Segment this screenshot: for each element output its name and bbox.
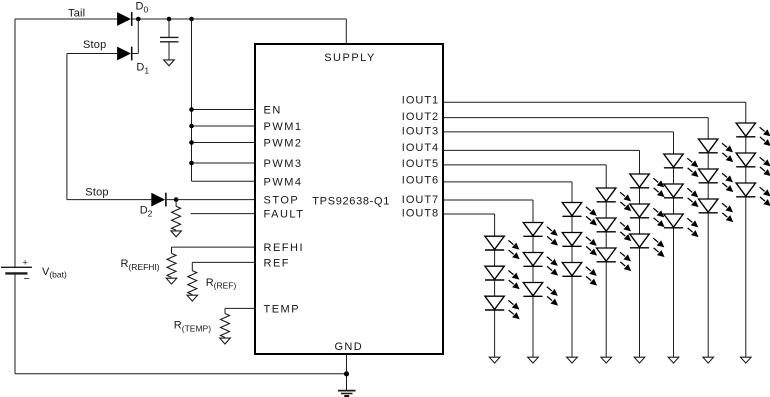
wire IOUT7 horizontal bbox=[443, 199, 533, 201]
wire Tail net horizontal bbox=[15, 18, 118, 20]
svg-text:IOUT4: IOUT4 bbox=[402, 142, 439, 154]
wire TEMP resistor lead bbox=[224, 308, 226, 313]
svg-text:PWM3: PWM3 bbox=[264, 158, 303, 170]
svg-text:EN: EN bbox=[264, 105, 282, 117]
wire D0 cathode to SUPPLY corner bbox=[133, 18, 347, 20]
output arrow IOUT7 string bbox=[528, 357, 539, 363]
junction D0 cathode node bbox=[136, 17, 141, 22]
junction PWM2 tap bbox=[189, 140, 194, 145]
LED string IOUT8 LED 1 bbox=[485, 236, 520, 259]
junction EN/PWM rail tap bbox=[189, 17, 194, 22]
LED string IOUT2 LED 2 bbox=[699, 169, 734, 192]
svg-text:+: + bbox=[23, 257, 28, 267]
svg-text:IOUT6: IOUT6 bbox=[402, 174, 439, 186]
LED string IOUT8 LED 3 bbox=[485, 296, 520, 319]
output arrow IOUT3 string bbox=[668, 357, 679, 363]
wire IOUT5 string vertical bbox=[605, 165, 607, 357]
junction PWM1 tap bbox=[189, 124, 194, 129]
svg-text:FAULT: FAULT bbox=[264, 209, 305, 221]
LED string IOUT5 LED 1 bbox=[597, 188, 632, 211]
wire ground return bottom bbox=[15, 373, 347, 375]
svg-text:IOUT7: IOUT7 bbox=[402, 194, 439, 206]
LED string IOUT3 LED 2 bbox=[664, 184, 699, 207]
wire IOUT5 horizontal bbox=[443, 164, 606, 166]
wire IOUT6 string vertical bbox=[571, 182, 573, 357]
wire PWM1 pin bbox=[192, 125, 256, 127]
wire PWM2 pin bbox=[192, 142, 256, 144]
wire IOUT8 string vertical bbox=[494, 214, 496, 357]
svg-text:Stop: Stop bbox=[85, 186, 108, 198]
diode D1 bbox=[117, 47, 132, 61]
junction GND node bbox=[344, 371, 349, 376]
wire battery positive to Tail node bbox=[14, 19, 16, 267]
wire Stop vertical bbox=[66, 54, 68, 200]
wire REFHI pin bbox=[172, 246, 256, 248]
wire Stop to D2 anode bbox=[67, 199, 152, 201]
wire IOUT4 string vertical bbox=[639, 150, 641, 357]
resistor STOP pulldown bbox=[172, 206, 181, 230]
svg-text:IOUT8: IOUT8 bbox=[402, 208, 439, 220]
wire IOUT7 string vertical bbox=[532, 200, 534, 357]
output arrow IOUT6 string bbox=[567, 357, 578, 363]
op-amp U1 TPS92638-Q1 IC body bbox=[255, 44, 443, 354]
LED string IOUT7 LED 3 bbox=[523, 283, 558, 306]
ground arrow R(TEMP) bbox=[220, 338, 231, 344]
LED string IOUT4 LED 3 bbox=[630, 234, 665, 257]
output arrow IOUT8 string bbox=[489, 357, 500, 363]
svg-text:REF: REF bbox=[264, 257, 291, 269]
wire IOUT1 string vertical bbox=[745, 102, 747, 357]
LED string IOUT1 LED 2 bbox=[736, 153, 770, 176]
svg-text:IOUT2: IOUT2 bbox=[402, 111, 439, 123]
LED string IOUT3 LED 1 bbox=[664, 154, 699, 177]
svg-text:IOUT5: IOUT5 bbox=[402, 158, 439, 170]
wire PWM4 pin bbox=[192, 180, 256, 182]
junction EN tap bbox=[189, 107, 194, 112]
wire IOUT2 string vertical bbox=[707, 118, 709, 358]
capacitor C1 bbox=[160, 37, 179, 41]
wire REF resistor lead bbox=[191, 262, 193, 270]
wire EN-PWM vertical rail bbox=[191, 19, 193, 181]
LED string IOUT5 LED 3 bbox=[597, 248, 632, 271]
wire STOP pin bbox=[166, 199, 255, 201]
svg-text:GND: GND bbox=[334, 341, 363, 353]
wire IOUT3 string vertical bbox=[673, 132, 675, 357]
wire IOUT6 horizontal bbox=[443, 181, 572, 183]
junction STOP node bbox=[174, 197, 179, 202]
LED string IOUT1 LED 3 bbox=[736, 183, 770, 206]
ground symbol bbox=[338, 391, 356, 397]
output arrow IOUT1 string bbox=[741, 357, 752, 363]
svg-text:TPS92638-Q1: TPS92638-Q1 bbox=[312, 195, 390, 207]
LED string IOUT4 LED 1 bbox=[630, 174, 665, 197]
diode D0 bbox=[117, 12, 132, 26]
LED string IOUT8 LED 2 bbox=[485, 266, 520, 289]
junction capacitor tap bbox=[167, 17, 172, 22]
wire PWM3 pin bbox=[192, 162, 256, 164]
LED string IOUT6 LED 2 bbox=[562, 233, 597, 256]
LED string IOUT1 LED 1 bbox=[736, 123, 770, 146]
wire TEMP pin bbox=[225, 307, 255, 309]
wire IOUT8 horizontal bbox=[443, 213, 495, 215]
output arrow IOUT4 string bbox=[634, 357, 645, 363]
wire capacitor top lead bbox=[168, 19, 170, 37]
svg-text:SUPPLY: SUPPLY bbox=[324, 52, 376, 64]
wire battery negative down bbox=[14, 273, 16, 373]
svg-text:−: − bbox=[24, 273, 30, 285]
wire D1 cathode to riser bbox=[132, 53, 139, 55]
wire REF pin bbox=[192, 261, 255, 263]
ground arrow capacitor bbox=[164, 60, 175, 66]
LED string IOUT7 LED 1 bbox=[523, 223, 558, 246]
svg-text:TEMP: TEMP bbox=[264, 303, 301, 315]
output arrow IOUT2 string bbox=[703, 357, 714, 363]
LED string IOUT3 LED 3 bbox=[664, 214, 699, 237]
wire IOUT1 horizontal bbox=[443, 101, 746, 103]
svg-text:IOUT1: IOUT1 bbox=[402, 94, 439, 106]
LED string IOUT6 LED 1 bbox=[562, 203, 597, 226]
wire STOP pulldown lead bbox=[175, 200, 177, 207]
resistor R(TEMP) bbox=[221, 314, 230, 338]
wire Stop to D1 anode bbox=[67, 53, 118, 55]
svg-text:PWM2: PWM2 bbox=[264, 138, 303, 150]
resistor R(REF) bbox=[188, 271, 197, 295]
wire IOUT4 horizontal bbox=[443, 149, 640, 151]
svg-text:PWM4: PWM4 bbox=[264, 176, 303, 188]
wire EN pin bbox=[192, 109, 256, 111]
wire D1 cathode riser bbox=[137, 19, 139, 54]
resistor R(REFHI) bbox=[167, 253, 176, 277]
LED string IOUT2 LED 3 bbox=[699, 199, 734, 222]
svg-text:Stop: Stop bbox=[83, 39, 106, 51]
svg-text:IOUT3: IOUT3 bbox=[402, 126, 439, 138]
LED string IOUT4 LED 2 bbox=[630, 204, 665, 227]
LED string IOUT6 LED 3 bbox=[562, 263, 597, 286]
wire SUPPLY drop bbox=[345, 19, 347, 44]
diode D2 bbox=[151, 193, 166, 207]
LED string IOUT5 LED 2 bbox=[597, 218, 632, 241]
LED string IOUT7 LED 2 bbox=[523, 253, 558, 276]
LED string IOUT2 LED 1 bbox=[699, 139, 734, 162]
battery V(bat) bbox=[1, 257, 32, 285]
wire IOUT3 horizontal bbox=[443, 131, 674, 133]
junction PWM3 tap bbox=[189, 161, 194, 166]
ground arrow R(REFHI) bbox=[166, 278, 177, 284]
svg-text:REFHI: REFHI bbox=[264, 242, 305, 254]
wire REFHI resistor lead bbox=[171, 247, 173, 253]
svg-text:PWM1: PWM1 bbox=[264, 121, 303, 133]
svg-text:STOP: STOP bbox=[264, 195, 300, 207]
wire capacitor bottom lead bbox=[168, 42, 170, 60]
output arrow IOUT5 string bbox=[601, 357, 612, 363]
wire IOUT2 horizontal bbox=[443, 117, 708, 119]
wire FAULT pin bbox=[191, 213, 255, 215]
svg-text:Tail: Tail bbox=[68, 8, 85, 20]
ground arrow STOP resistor bbox=[171, 231, 182, 237]
wire GND pin drop bbox=[346, 354, 348, 390]
ground arrow R(REF) bbox=[187, 295, 198, 301]
